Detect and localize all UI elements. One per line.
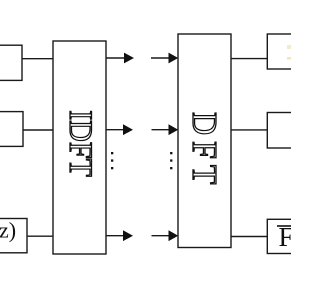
arrow IDFT out row3 — [106, 230, 133, 241]
arrow into DFT row3 — [152, 230, 179, 241]
wire DFT to FM-1 — [231, 236, 268, 238]
svg-text:DFT: DFT — [184, 112, 223, 190]
arrow IDFT out row2 — [106, 124, 133, 135]
vertical ellipsis left column — [111, 152, 113, 169]
filter box GM-1(z) — [0, 218, 27, 253]
filter box G1(z) — [0, 112, 23, 147]
wire DFT to F1 — [231, 129, 268, 131]
IDFT block — [53, 41, 106, 254]
wire G0 to IDFT — [22, 58, 54, 60]
svg-text:z): z) — [0, 218, 16, 243]
arrow into DFT row2 — [152, 124, 179, 135]
filter box G0(z) — [0, 45, 22, 80]
wire GM-1 to IDFT — [27, 235, 54, 237]
filter box F0(z) — [267, 34, 299, 69]
vertical ellipsis right column — [170, 152, 172, 169]
svg-text:IDFT: IDFT — [63, 110, 100, 177]
arrow into DFT row1 — [151, 53, 178, 64]
wire DFT to F0 — [231, 58, 268, 60]
DFT block — [178, 34, 231, 248]
wire G1 to IDFT — [23, 129, 54, 131]
filter box FM-1(z) — [267, 219, 299, 253]
arrow IDFT out row1 — [106, 53, 134, 64]
filter box F1(z) — [267, 113, 299, 149]
